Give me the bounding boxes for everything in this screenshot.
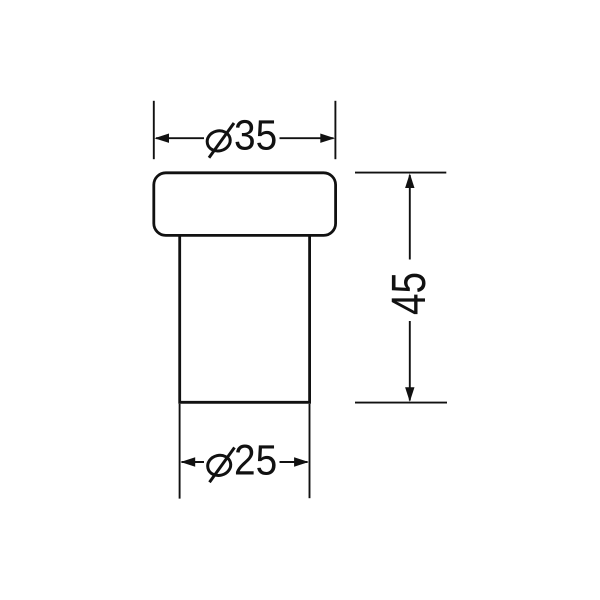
45 up arrowhead <box>405 173 414 188</box>
svg-text:25: 25 <box>234 437 277 484</box>
svg-text:35: 35 <box>234 112 277 159</box>
45 dimension line upper segment <box>409 175 411 260</box>
45 down arrowhead <box>405 387 414 402</box>
φ25 right arrowhead <box>294 457 309 466</box>
φ35 left extension line <box>153 101 155 159</box>
φ35 value text <box>234 112 277 159</box>
φ25 right extension line <box>309 404 311 498</box>
φ25 value text <box>234 437 277 484</box>
φ35 dimension line left segment <box>156 137 204 139</box>
knob body outline <box>178 236 311 402</box>
45 bottom extension line <box>355 402 447 404</box>
45 value text (rotated) <box>383 272 436 315</box>
45 top extension line <box>355 172 446 174</box>
45 dimension line lower segment <box>409 321 411 401</box>
φ (phi) symbol of φ25 <box>206 448 235 483</box>
φ25 left extension line <box>179 404 181 499</box>
knob cap outline <box>154 173 336 236</box>
φ35 left arrowhead <box>154 134 169 143</box>
φ25 dimension line right segment <box>280 461 308 463</box>
φ25 dimension line left segment <box>182 461 205 463</box>
φ25 left arrowhead <box>181 457 196 466</box>
φ35 right arrowhead <box>320 134 335 143</box>
φ (phi) symbol of φ35 <box>205 123 234 158</box>
svg-text:45: 45 <box>383 272 436 315</box>
φ35 right extension line <box>334 101 336 159</box>
φ35 dimension line right segment <box>280 137 334 139</box>
